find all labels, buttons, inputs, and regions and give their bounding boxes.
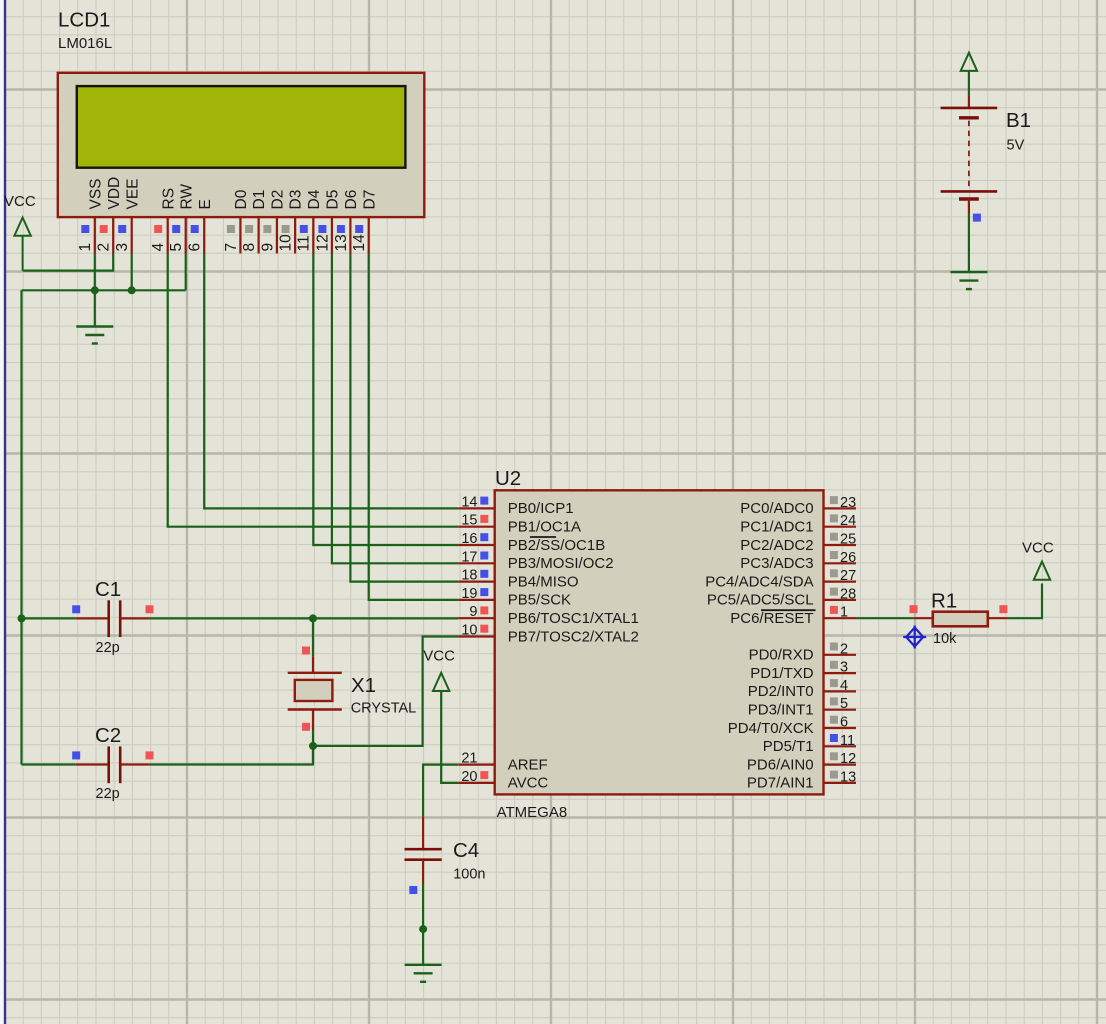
- U2 pin 14 (PB0/ICP1): [458, 494, 573, 517]
- svg-text:ATMEGA8: ATMEGA8: [497, 804, 568, 821]
- wire VCC arrow to battery: [968, 71, 970, 95]
- junction VSS/gnd: [91, 286, 99, 294]
- wire LCD D7 to U2 PB5: [369, 254, 459, 600]
- svg-text:10: 10: [461, 623, 477, 639]
- U2 pin 3 (PD1/TXD): [750, 660, 856, 682]
- capacitor C2: [72, 724, 153, 802]
- wire VCC to U2 AVCC pin20: [441, 691, 458, 783]
- svg-text:100n: 100n: [453, 867, 485, 883]
- svg-text:D7: D7: [361, 190, 378, 210]
- ground symbol under battery: [950, 272, 987, 289]
- svg-text:6: 6: [187, 243, 204, 252]
- svg-text:VSS: VSS: [87, 178, 104, 209]
- svg-text:AVCC: AVCC: [508, 775, 549, 792]
- svg-text:PC2/ADC2: PC2/ADC2: [740, 537, 813, 554]
- junction VEE/gnd: [128, 286, 136, 294]
- svg-text:VCC: VCC: [423, 648, 455, 665]
- svg-text:PC1/ADC1: PC1/ADC1: [740, 519, 813, 536]
- svg-text:9: 9: [469, 604, 477, 620]
- svg-text:VCC: VCC: [4, 193, 36, 210]
- ground symbol under C4: [405, 965, 442, 982]
- wire R1 to VCC: [1007, 584, 1042, 619]
- svg-text:PB3/MOSI/OC2: PB3/MOSI/OC2: [508, 555, 614, 572]
- svg-text:C2: C2: [95, 724, 121, 747]
- svg-text:D5: D5: [325, 190, 342, 210]
- svg-text:12: 12: [840, 751, 856, 767]
- svg-text:PD6/AIN0: PD6/AIN0: [747, 756, 814, 773]
- junction left vertical / C1: [18, 614, 26, 622]
- LCD pin 11 (D4): [296, 189, 323, 253]
- microcontroller U2 label: [495, 467, 521, 490]
- LCD pin 8 (D1): [241, 190, 268, 254]
- power symbol VCC (right): [1022, 540, 1054, 580]
- power symbol VCC (top left): [4, 193, 36, 271]
- wire LCD D6 to U2 PB4: [350, 254, 458, 582]
- svg-text:5V: 5V: [1007, 138, 1025, 154]
- capacitor C4: [405, 816, 486, 894]
- wire C4 to ground: [422, 883, 424, 965]
- svg-text:3: 3: [114, 243, 131, 252]
- svg-text:PD5/T1: PD5/T1: [763, 738, 814, 755]
- svg-text:D3: D3: [288, 190, 305, 210]
- svg-text:C1: C1: [95, 578, 121, 601]
- svg-text:6: 6: [840, 715, 848, 731]
- ground symbol under LCD: [76, 327, 113, 344]
- svg-text:PD2/INT0: PD2/INT0: [748, 683, 814, 700]
- svg-text:2: 2: [840, 641, 848, 657]
- svg-text:26: 26: [840, 550, 856, 566]
- junction C1 wire / crystal: [309, 614, 317, 622]
- U2 pin 5 (PD3/INT1): [748, 696, 856, 718]
- LCD pin 5 (RW): [168, 184, 195, 254]
- svg-text:LCD1: LCD1: [58, 9, 110, 32]
- svg-text:PB0/ICP1: PB0/ICP1: [508, 500, 574, 517]
- svg-text:10k: 10k: [933, 631, 957, 647]
- svg-text:C4: C4: [453, 839, 479, 862]
- svg-text:28: 28: [840, 586, 856, 602]
- svg-text:22p: 22p: [96, 640, 120, 656]
- U2 pin 17 (PB3/MOSI/OC2): [458, 549, 613, 572]
- U2 pin 9 (PB6/TOSC1/XTAL1): [458, 604, 639, 627]
- svg-text:13: 13: [333, 234, 350, 251]
- LCD pin 2 (VDD): [96, 177, 123, 254]
- LCD pin 9 (D2): [259, 190, 286, 254]
- LCD pin 7 (D0): [223, 189, 250, 253]
- U2 pin 10 (PB7/TOSC2/XTAL2): [458, 623, 639, 646]
- svg-text:E: E: [197, 199, 214, 209]
- LCD pin 13 (D6): [333, 190, 360, 254]
- svg-text:3: 3: [840, 660, 848, 676]
- svg-text:16: 16: [461, 531, 477, 547]
- svg-text:4: 4: [150, 243, 167, 252]
- U2 pin 26 (PC3/ADC3): [740, 550, 856, 572]
- svg-text:U2: U2: [495, 467, 521, 490]
- svg-text:PD0/RXD: PD0/RXD: [749, 647, 814, 664]
- svg-text:RS: RS: [160, 188, 177, 210]
- LCD pin 14 (D7): [351, 190, 378, 254]
- svg-text:18: 18: [461, 568, 477, 584]
- U2 pin 18 (PB4/MISO): [458, 568, 578, 591]
- resistor R1: [910, 590, 1008, 648]
- wire battery to ground: [968, 213, 970, 272]
- U2 pin 25 (PC2/ADC2): [740, 532, 856, 554]
- svg-text:LM016L: LM016L: [58, 35, 112, 52]
- LCD pin 12 (D5): [314, 190, 341, 254]
- microcontroller U2 body: [495, 490, 824, 821]
- svg-text:D2: D2: [270, 190, 287, 210]
- svg-text:AREF: AREF: [508, 756, 548, 773]
- svg-text:VEE: VEE: [124, 178, 141, 209]
- svg-text:10: 10: [278, 234, 295, 252]
- svg-text:PD1/TXD: PD1/TXD: [750, 665, 814, 682]
- svg-text:PD3/INT1: PD3/INT1: [748, 702, 814, 719]
- LCD pin 4 (RS): [150, 188, 177, 254]
- U2 pin 23 (PC0/ADC0): [740, 495, 856, 517]
- LCD pin 3 (VEE): [114, 178, 141, 253]
- svg-text:19: 19: [461, 586, 477, 602]
- wire LCD E to U2 PB0: [204, 254, 458, 509]
- svg-text:24: 24: [840, 513, 856, 529]
- wire U2 AREF pin21 to C4: [423, 765, 458, 817]
- svg-text:PB4/MISO: PB4/MISO: [508, 573, 579, 590]
- svg-text:RW: RW: [178, 184, 195, 210]
- LCD pin 6 (E): [187, 199, 214, 253]
- svg-text:D1: D1: [251, 190, 268, 210]
- svg-text:VDD: VDD: [106, 177, 123, 210]
- U2 pin 28 (PC5/ADC5/SCL): [707, 586, 856, 608]
- svg-text:VCC: VCC: [1022, 540, 1054, 557]
- svg-text:22p: 22p: [96, 786, 120, 802]
- wire LCD pin1 VSS down: [94, 254, 96, 327]
- svg-text:8: 8: [241, 243, 258, 252]
- svg-text:B1: B1: [1006, 109, 1031, 132]
- power symbol VCC (AVCC): [423, 648, 455, 692]
- U2 pin 24 (PC1/ADC1): [740, 513, 856, 535]
- svg-text:15: 15: [461, 513, 477, 529]
- svg-text:5: 5: [840, 696, 848, 712]
- U2 pin 1 (PC6/RESET): [730, 605, 856, 627]
- wire LCD pin5 RW down: [185, 254, 187, 291]
- svg-text:23: 23: [840, 495, 856, 511]
- battery B1: [941, 95, 1031, 222]
- svg-text:PC5/ADC5/SCL: PC5/ADC5/SCL: [707, 592, 814, 609]
- U2 pin 21 (AREF): [458, 751, 547, 774]
- origin marker (blue): [903, 626, 926, 649]
- LCD pin 10 (D3): [278, 190, 305, 254]
- svg-text:D0: D0: [233, 189, 250, 209]
- svg-text:D6: D6: [343, 190, 360, 210]
- svg-text:2: 2: [96, 243, 113, 252]
- wire U2 XTAL2 pin10 to crystal: [313, 637, 458, 746]
- U2 pin 4 (PD2/INT0): [748, 678, 856, 700]
- power symbol VCC arrow above battery: [961, 53, 977, 71]
- wire LCD D5 to U2 PB3: [332, 254, 458, 564]
- wire C2 to crystal junction: [149, 746, 313, 765]
- svg-text:13: 13: [840, 769, 856, 785]
- wire U2 RESET pin1 to R1: [856, 617, 914, 619]
- svg-text:1: 1: [77, 243, 94, 252]
- svg-text:PC6/RESET: PC6/RESET: [730, 610, 813, 627]
- svg-text:7: 7: [223, 243, 240, 252]
- LCD LCD1 body: [58, 73, 425, 217]
- U2 pin 16 (PB2/SS/OC1B): [458, 531, 605, 554]
- svg-text:R1: R1: [931, 590, 957, 613]
- wire LCD pin3 VEE down: [131, 254, 133, 291]
- wire C1 to U2 XTAL1 pin9: [149, 617, 458, 619]
- svg-text:PB7/TOSC2/XTAL2: PB7/TOSC2/XTAL2: [508, 628, 639, 645]
- svg-text:PD4/T0/XCK: PD4/T0/XCK: [728, 720, 814, 737]
- svg-text:17: 17: [461, 549, 477, 565]
- svg-text:PB2/SS/OC1B: PB2/SS/OC1B: [508, 537, 606, 554]
- U2 pin 2 (PD0/RXD): [749, 641, 856, 663]
- svg-text:PC3/ADC3: PC3/ADC3: [740, 555, 813, 572]
- U2 pin 20 (AVCC): [458, 769, 548, 792]
- U2 pin 11 (PD5/T1): [763, 733, 856, 755]
- U2 pin 19 (PB5/SCK): [458, 586, 571, 609]
- wire C1 left to gnd vertical: [22, 617, 76, 619]
- svg-text:PD7/AIN1: PD7/AIN1: [747, 775, 814, 792]
- svg-text:12: 12: [314, 234, 331, 251]
- svg-text:14: 14: [351, 234, 368, 252]
- svg-text:11: 11: [296, 235, 313, 251]
- svg-text:PC4/ADC4/SDA: PC4/ADC4/SDA: [705, 573, 813, 590]
- svg-text:PC0/ADC0: PC0/ADC0: [740, 500, 813, 517]
- svg-text:4: 4: [840, 678, 848, 694]
- capacitor C1: [72, 578, 153, 656]
- U2 pin 6 (PD4/T0/XCK): [728, 715, 856, 737]
- U2 pin 15 (PB1/OC1A): [458, 513, 581, 536]
- svg-text:PB5/SCK: PB5/SCK: [508, 592, 571, 609]
- wire VCC to LCD pin2 VDD: [23, 254, 114, 271]
- svg-text:9: 9: [259, 243, 276, 252]
- sheet border: [0, 0, 5, 1024]
- wire LCD D4 to U2 PB2: [313, 254, 458, 546]
- junction C4/gnd: [419, 925, 427, 933]
- wire ground bus under LCD: [22, 289, 186, 291]
- junction crystal bottom / pin10 wire / C2: [309, 742, 317, 750]
- svg-text:25: 25: [840, 532, 856, 548]
- svg-text:20: 20: [461, 769, 477, 785]
- wire LCD RS to U2 PB1: [168, 254, 459, 527]
- svg-text:1: 1: [840, 605, 848, 621]
- LCD pin 1 (VSS): [77, 178, 104, 253]
- svg-text:X1: X1: [351, 674, 376, 697]
- svg-text:21: 21: [461, 751, 477, 767]
- U2 pin 27 (PC4/ADC4/SDA): [705, 568, 856, 590]
- svg-text:27: 27: [840, 568, 856, 584]
- svg-text:PB6/TOSC1/XTAL1: PB6/TOSC1/XTAL1: [508, 610, 639, 627]
- svg-text:11: 11: [840, 733, 855, 749]
- U2 pin 12 (PD6/AIN0): [747, 751, 856, 773]
- svg-text:14: 14: [461, 494, 477, 510]
- wire gnd bus to C1/C2 (left vertical): [20, 290, 22, 764]
- svg-text:PB1/OC1A: PB1/OC1A: [508, 519, 581, 536]
- wire C2 left: [22, 763, 76, 765]
- U2 pin 13 (PD7/AIN1): [747, 769, 856, 791]
- svg-text:5: 5: [168, 243, 185, 252]
- LCD LCD1 label: [58, 9, 112, 53]
- svg-text:CRYSTAL: CRYSTAL: [351, 701, 417, 717]
- wire crystal bottom to C2 wire: [312, 746, 314, 765]
- crystal X1: [288, 618, 417, 746]
- svg-text:D4: D4: [306, 189, 323, 209]
